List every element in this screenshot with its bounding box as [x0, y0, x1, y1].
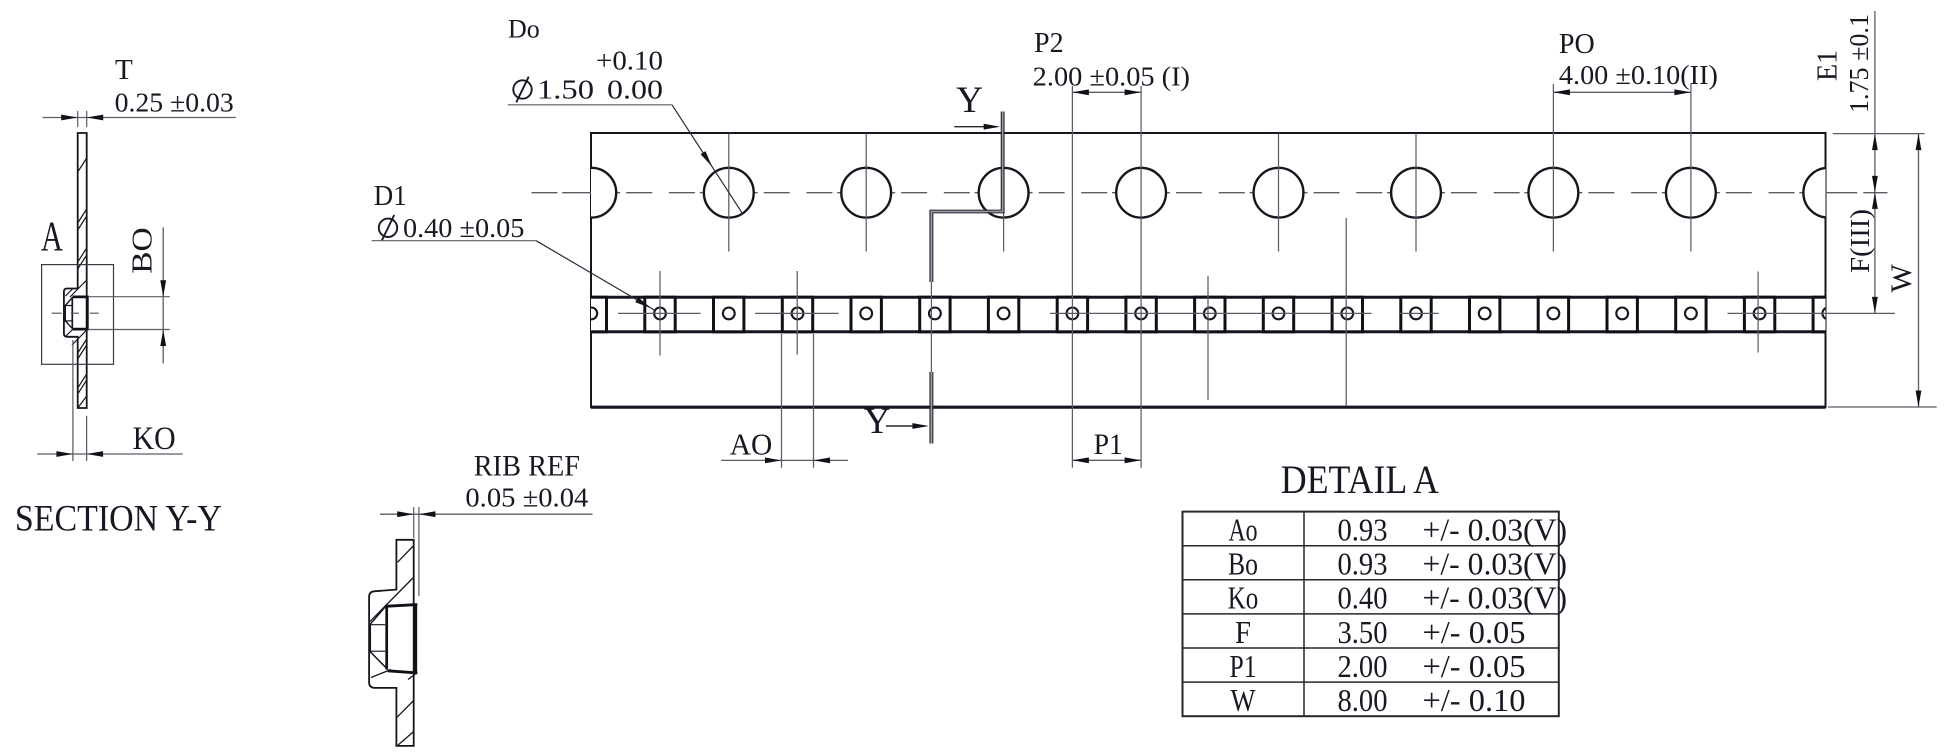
detail A rib strip outline	[369, 540, 414, 746]
svg-text:DETAIL A: DETAIL A	[1281, 457, 1439, 502]
svg-text:0.25 ±0.03: 0.25 ±0.03	[115, 88, 234, 118]
svg-text:+/- 0.10: +/- 0.10	[1423, 682, 1526, 718]
svg-text:Bo: Bo	[1228, 546, 1258, 582]
svg-text:8.00: 8.00	[1338, 682, 1388, 718]
svg-text:1.75 ±0.1: 1.75 ±0.1	[1844, 14, 1874, 113]
dimension P1 pocket pitch	[1072, 428, 1141, 463]
svg-text:+/- 0.05: +/- 0.05	[1423, 614, 1526, 650]
section arrow Y top	[954, 80, 1000, 130]
svg-text:W: W	[1231, 682, 1257, 718]
svg-text:T: T	[115, 54, 133, 86]
svg-text:KO: KO	[133, 421, 176, 457]
svg-text:D1: D1	[374, 180, 407, 212]
svg-text:P1: P1	[1230, 648, 1257, 684]
pocket vertical centrelines	[660, 218, 1758, 406]
sprocket hole vertical centrelines	[729, 84, 1691, 252]
svg-text:P2: P2	[1034, 28, 1064, 59]
pocket centreline segments	[618, 312, 1895, 314]
svg-text:0.05 ±0.04: 0.05 ±0.04	[465, 483, 588, 513]
section Y-Y pocket centreline	[52, 312, 99, 314]
label A	[41, 215, 63, 261]
dimension RIB REF	[380, 449, 593, 596]
dimension AO pocket width	[721, 334, 848, 468]
dimension W tape width	[1828, 134, 1937, 407]
dimension BO pocket length	[89, 227, 170, 363]
svg-text:+/- 0.05: +/- 0.05	[1423, 648, 1526, 684]
svg-text:Y: Y	[956, 80, 983, 121]
detail A pocket cavity	[369, 604, 417, 674]
svg-text:0.93: 0.93	[1338, 546, 1388, 582]
svg-text:PO: PO	[1559, 29, 1595, 60]
dimension PO sprocket pitch	[1553, 29, 1718, 95]
svg-text:0.40: 0.40	[1338, 580, 1388, 616]
sprocket holes row	[566, 168, 1853, 218]
svg-text:E1: E1	[1813, 50, 1844, 81]
title SECTION Y-Y	[15, 499, 222, 540]
svg-text:P1: P1	[1094, 428, 1123, 461]
svg-text:BO: BO	[127, 227, 159, 273]
wire tape outline	[591, 133, 1826, 407]
svg-text:Do: Do	[508, 15, 540, 44]
svg-text:SECTION Y-Y: SECTION Y-Y	[15, 499, 222, 540]
sprocket hole centreline	[531, 192, 1888, 194]
svg-text:Ko: Ko	[1228, 580, 1259, 616]
component pockets row	[576, 297, 1843, 332]
svg-text:RIB REF: RIB REF	[474, 449, 580, 482]
section arrow Y bottom	[864, 401, 929, 442]
svg-text:Y: Y	[864, 401, 891, 442]
svg-text:F: F	[1235, 614, 1251, 650]
svg-text:Ao: Ao	[1228, 512, 1257, 548]
svg-text:+/- 0.03(V): +/- 0.03(V)	[1423, 546, 1568, 582]
dimension D1 pocket hole diameter	[372, 180, 655, 310]
dimension F(III)	[1845, 192, 1878, 313]
section Y-Y pocket cavity	[64, 296, 89, 331]
svg-text:0.00: 0.00	[607, 75, 663, 105]
dimension E1	[1813, 11, 1925, 192]
svg-text:3.50: 3.50	[1338, 614, 1388, 650]
svg-text:F(III): F(III)	[1845, 209, 1875, 273]
svg-text:W: W	[1885, 263, 1918, 292]
section Y-Y strip outline	[64, 133, 87, 408]
section line Y-Y	[930, 112, 1004, 444]
svg-text:+/- 0.03(V): +/- 0.03(V)	[1423, 512, 1568, 548]
section Y-Y hatching	[66, 158, 87, 408]
dimension T tape thickness	[43, 54, 236, 127]
svg-text:A: A	[41, 215, 63, 261]
svg-text:0.93: 0.93	[1338, 512, 1388, 548]
detail A hatching	[370, 546, 417, 746]
dimension Do sprocket hole diameter	[508, 15, 743, 215]
svg-text:+0.10: +0.10	[596, 46, 663, 76]
svg-text:4.00 ±0.10(II): 4.00 ±0.10(II)	[1559, 60, 1718, 90]
dimension KO pocket depth	[37, 340, 183, 461]
detail A boundary box	[42, 265, 114, 365]
svg-text:1.50: 1.50	[537, 75, 594, 105]
dimension P2	[1033, 28, 1190, 468]
svg-text:+/- 0.03(V): +/- 0.03(V)	[1423, 580, 1568, 616]
table title DETAIL A	[1281, 457, 1439, 502]
pocket band edges	[591, 297, 1826, 332]
table DETAIL A	[1183, 512, 1568, 719]
svg-text:0.40 ±0.05: 0.40 ±0.05	[403, 213, 524, 243]
svg-text:2.00: 2.00	[1338, 648, 1388, 684]
svg-text:2.00 ±0.05 (I): 2.00 ±0.05 (I)	[1033, 62, 1190, 92]
svg-text:AO: AO	[730, 426, 773, 461]
